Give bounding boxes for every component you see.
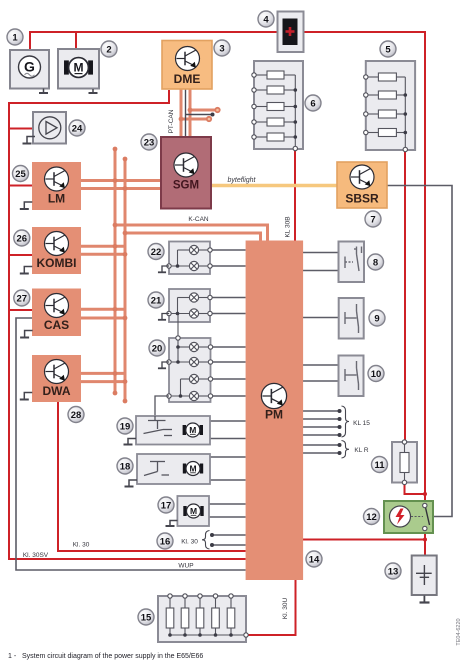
- svg-text:G: G: [24, 59, 35, 75]
- svg-text:1 - System circuit diagram o: 1 - System circuit diagram of the power …: [8, 653, 203, 660]
- svg-text:PT-CAN: PT-CAN: [168, 109, 175, 133]
- svg-text:26: 26: [17, 233, 28, 244]
- svg-text:14: 14: [309, 554, 320, 565]
- svg-text:7: 7: [370, 214, 375, 225]
- svg-text:23: 23: [144, 137, 155, 148]
- svg-text:byteflight: byteflight: [227, 177, 256, 184]
- svg-text:PM: PM: [265, 408, 283, 422]
- svg-text:21: 21: [151, 295, 162, 306]
- svg-text:Kl. 30: Kl. 30: [73, 542, 90, 549]
- svg-text:5: 5: [385, 44, 391, 55]
- svg-text:2: 2: [106, 44, 111, 55]
- svg-text:28: 28: [71, 410, 82, 421]
- svg-text:10: 10: [371, 369, 382, 380]
- svg-text:DME: DME: [174, 72, 201, 86]
- svg-text:KOMBI: KOMBI: [37, 256, 77, 270]
- svg-text:6: 6: [310, 98, 315, 109]
- svg-text:9: 9: [374, 313, 379, 324]
- svg-text:K-CAN: K-CAN: [188, 216, 209, 223]
- svg-text:SGM: SGM: [173, 180, 199, 192]
- svg-text:4: 4: [263, 14, 269, 25]
- svg-text:16: 16: [160, 536, 171, 547]
- svg-text:1: 1: [12, 32, 18, 43]
- svg-text:Kl. 30: Kl. 30: [181, 539, 198, 546]
- svg-text:15: 15: [141, 612, 152, 623]
- svg-text:18: 18: [120, 461, 131, 472]
- svg-text:17: 17: [161, 500, 172, 511]
- svg-text:SBSR: SBSR: [345, 192, 379, 206]
- svg-text:Kl. 30U: Kl. 30U: [282, 598, 289, 620]
- svg-text:KL 30B: KL 30B: [285, 216, 292, 237]
- svg-text:WUP: WUP: [178, 563, 193, 570]
- svg-text:20: 20: [152, 343, 163, 354]
- svg-text:8: 8: [373, 257, 378, 268]
- svg-text:LM: LM: [48, 192, 65, 206]
- svg-text:KL R: KL R: [354, 447, 369, 454]
- svg-text:KL 15: KL 15: [353, 420, 370, 427]
- svg-text:3: 3: [219, 43, 224, 54]
- svg-text:24: 24: [72, 123, 83, 134]
- svg-text:27: 27: [17, 293, 28, 304]
- svg-text:CAS: CAS: [44, 318, 69, 332]
- svg-text:12: 12: [366, 512, 377, 523]
- svg-text:Kl. 30SV: Kl. 30SV: [23, 552, 49, 559]
- svg-text:TE04-6220: TE04-6220: [456, 618, 462, 645]
- svg-text:11: 11: [374, 460, 385, 471]
- svg-text:25: 25: [15, 169, 26, 180]
- svg-text:DWA: DWA: [43, 384, 71, 398]
- svg-text:19: 19: [120, 421, 131, 432]
- svg-text:22: 22: [151, 247, 162, 258]
- svg-text:13: 13: [388, 566, 399, 577]
